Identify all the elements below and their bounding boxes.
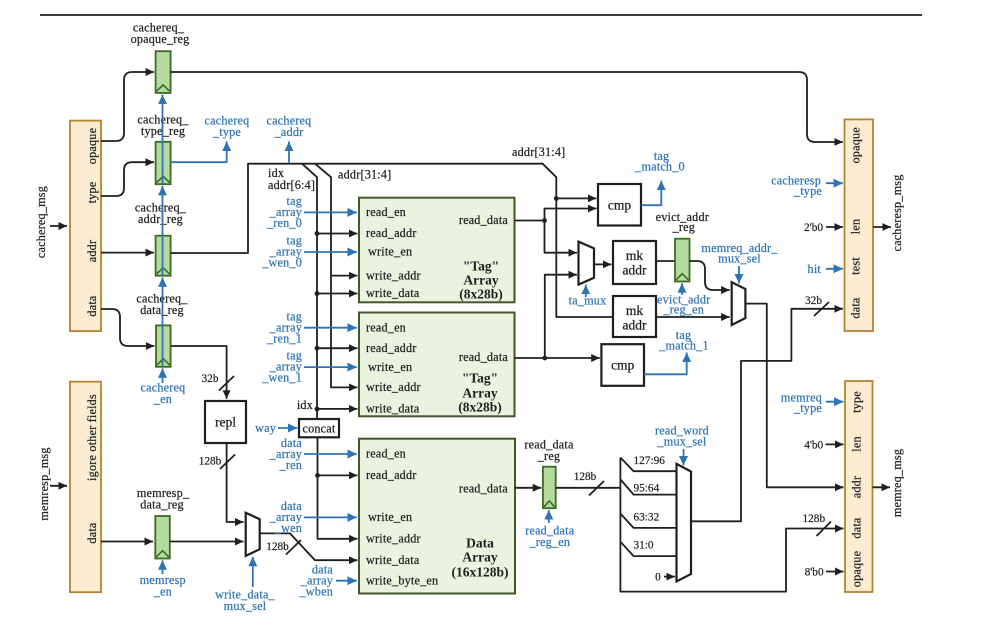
svg-text:write_en: write_en	[368, 245, 412, 259]
svg-text:_type: _type	[793, 401, 822, 415]
label 95:64	[634, 483, 660, 495]
label tag_array_ren_1	[266, 309, 303, 345]
svg-text:4'b0: 4'b0	[804, 439, 823, 451]
svg-text:_wben: _wben	[299, 585, 334, 599]
svg-text:addr[31:4]: addr[31:4]	[512, 145, 565, 159]
wire data_array_wen	[304, 516, 357, 518]
svg-text:_reg_en: _reg_en	[528, 535, 570, 549]
wire mk addr 2 output to memreq addr mux	[656, 316, 730, 318]
wire memreq_msg output arrow	[873, 486, 891, 488]
wire memreq addr mux output to memreq addr	[745, 304, 843, 488]
svg-text:read_data: read_data	[459, 482, 509, 496]
wire type_reg blue tap cachereq_type	[171, 142, 227, 163]
label evict_addr_reg_en	[657, 292, 710, 316]
label read_data_reg_en	[525, 524, 575, 550]
svg-text:memresp_msg: memresp_msg	[37, 447, 51, 520]
svg-text:2'b0: 2'b0	[804, 222, 823, 234]
register evict_addr_reg	[675, 239, 690, 282]
label evict_addr_reg	[656, 210, 709, 234]
slash 128b rd	[589, 481, 604, 496]
wire tag1 read_data output to cmp1	[515, 357, 600, 359]
slash 128b memreq	[817, 522, 832, 537]
svg-text:_reg_en: _reg_en	[662, 303, 704, 317]
svg-text:idx: idx	[297, 398, 313, 412]
label idx concat	[297, 398, 313, 412]
label 4'b0	[804, 439, 823, 451]
svg-text:data: data	[849, 297, 863, 318]
junction tag1 read_data	[542, 356, 547, 361]
label cachereq_en	[141, 381, 186, 407]
label cachereq_addr	[267, 114, 312, 140]
wire evict_addr_reg output to memreq addr mux	[690, 261, 730, 290]
svg-text:read_data: read_data	[459, 350, 509, 364]
label cacheresp_type	[771, 173, 822, 198]
svg-text:write_addr: write_addr	[366, 380, 421, 394]
svg-text:write_en: write_en	[368, 360, 412, 374]
svg-text:addr: addr	[623, 263, 647, 278]
svg-text:_wen_1: _wen_1	[261, 371, 302, 385]
wire tag0 read_data output	[515, 220, 545, 222]
svg-text:31:0: 31:0	[634, 540, 654, 552]
svg-text:_ren_1: _ren_1	[266, 331, 302, 345]
label 2'b0	[804, 222, 823, 234]
svg-text:"Tag": "Tag"	[462, 371, 498, 386]
svg-text:opaque_reg: opaque_reg	[131, 32, 190, 46]
svg-text:(16x128b): (16x128b)	[452, 565, 509, 580]
svg-text:addr: addr	[85, 240, 99, 262]
label tag_array_ren_0	[266, 194, 303, 230]
label memresp_en	[140, 573, 186, 599]
label way	[255, 421, 277, 435]
svg-text:opaque: opaque	[849, 551, 863, 587]
svg-text:128b: 128b	[803, 513, 826, 525]
svg-text:write_byte_en: write_byte_en	[366, 573, 438, 587]
svg-text:Array: Array	[462, 550, 497, 565]
wire repl output to write data mux	[227, 443, 244, 522]
svg-text:type: type	[849, 391, 863, 413]
cacheresp_msg port label	[890, 174, 904, 251]
label tag_array_wen_0	[261, 234, 302, 270]
wire tag_array_wen_0	[304, 251, 357, 253]
wire branch tag0 read_addr	[317, 233, 357, 235]
svg-text:memreq_msg: memreq_msg	[890, 449, 904, 517]
register read_data_reg	[524, 438, 574, 509]
wire slice 31:0	[620, 542, 676, 556]
wire read_data_reg output 128b bus	[556, 487, 621, 489]
svg-text:128b: 128b	[574, 471, 597, 483]
wire slice 127:96	[620, 458, 676, 472]
svg-text:addr[31:4]: addr[31:4]	[338, 168, 391, 182]
label tag_array_wen_1	[261, 349, 302, 385]
wire data_array_wben	[336, 580, 357, 582]
svg-text:addr: addr	[849, 476, 863, 498]
wire opaque_reg output to cacheresp opaque	[171, 72, 843, 142]
label idx addr[6:4]	[268, 166, 315, 192]
svg-text:cacheresp_msg: cacheresp_msg	[890, 174, 904, 251]
wire 2'b0 arrow	[826, 226, 843, 228]
svg-text:addr_reg: addr_reg	[138, 212, 183, 226]
svg-text:test: test	[849, 257, 863, 275]
svg-text:_reg: _reg	[537, 449, 560, 463]
svg-text:write_addr: write_addr	[366, 532, 421, 546]
label data_array_wben	[299, 563, 334, 599]
label hit	[808, 262, 822, 276]
svg-text:mux_sel: mux_sel	[224, 599, 267, 613]
svg-text:63:32: 63:32	[634, 512, 660, 524]
svg-text:read_addr: read_addr	[366, 341, 417, 355]
svg-text:cmp: cmp	[611, 358, 634, 373]
svg-text:_type: _type	[793, 184, 822, 198]
svg-text:32b: 32b	[202, 373, 219, 385]
label 8'b0	[805, 566, 824, 578]
cachereq_msg field box	[70, 121, 101, 332]
label tag_match_0	[634, 149, 685, 174]
wire ta_mux sel	[585, 285, 587, 297]
slash 128b repl	[220, 455, 235, 470]
svg-text:read_addr: read_addr	[366, 226, 417, 240]
svg-text:way: way	[255, 421, 277, 435]
wire memreq_type arrow	[826, 401, 844, 403]
svg-text:len: len	[849, 436, 863, 452]
svg-text:write_en: write_en	[368, 510, 412, 524]
wire memresp_en	[162, 560, 164, 574]
svg-text:hit: hit	[808, 262, 822, 276]
svg-text:data: data	[85, 295, 99, 316]
label tag_match_1	[658, 328, 709, 353]
register cachereq_type_reg	[137, 113, 189, 185]
wire 4'b0 arrow	[826, 443, 844, 445]
wire hit arrow	[826, 268, 843, 270]
wire memresp_msg arrow	[50, 485, 67, 487]
mux memreq_addr_mux	[732, 282, 746, 325]
label cachereq_type	[205, 114, 250, 140]
wire slice 95:64	[620, 479, 676, 494]
label constant 0	[655, 572, 661, 584]
svg-text:_en: _en	[153, 392, 172, 406]
svg-text:"Tag": "Tag"	[463, 259, 499, 274]
svg-text:32b: 32b	[805, 295, 822, 307]
svg-text:read_addr: read_addr	[366, 468, 417, 482]
svg-text:data: data	[849, 517, 863, 538]
wire way arrow	[278, 427, 297, 429]
svg-text:_match_1: _match_1	[658, 339, 709, 353]
cacheresp_msg field box	[845, 119, 874, 331]
svg-text:repl: repl	[215, 415, 236, 430]
mux ta_mux	[579, 242, 595, 285]
svg-text:write_addr: write_addr	[366, 268, 421, 282]
label data_array_ren	[269, 436, 303, 472]
wire read_word_mux_sel	[683, 449, 685, 466]
svg-text:_type: _type	[212, 125, 241, 139]
wire tag_array_ren_1	[304, 327, 357, 329]
svg-text:write_data: write_data	[366, 286, 420, 300]
wire constant 0 arrow	[664, 576, 675, 578]
wire data_reg output to repl	[171, 346, 227, 399]
Data Array block	[359, 439, 515, 594]
label 128b memreq	[803, 513, 826, 525]
svg-text:_reg: _reg	[672, 220, 695, 234]
label 128b wmux	[266, 541, 289, 553]
svg-text:(8x28b): (8x28b)	[458, 400, 502, 415]
svg-text:_addr: _addr	[274, 125, 304, 139]
svg-text:_match_0: _match_0	[634, 160, 685, 174]
svg-text:95:64: 95:64	[634, 483, 660, 495]
wire memreq_addr_mux_sel	[738, 266, 740, 284]
wire branch tag0 write_addr	[331, 275, 357, 277]
svg-text:cmp: cmp	[608, 198, 631, 213]
svg-text:127:96: 127:96	[634, 455, 666, 467]
wire branch to cmp0 input	[545, 209, 597, 221]
memreq_msg field box	[845, 381, 873, 592]
memresp_msg field box	[70, 382, 101, 593]
wire ta_mux output	[594, 263, 611, 265]
label 128b rd	[574, 471, 597, 483]
register cachereq_addr_reg	[135, 201, 187, 276]
wire data_array_ren	[304, 453, 357, 455]
junction tag0 read_data	[542, 218, 547, 223]
label 31:0	[634, 540, 654, 552]
svg-text:type: type	[85, 182, 99, 204]
svg-text:ta_mux: ta_mux	[569, 294, 607, 308]
svg-text:Array: Array	[462, 386, 497, 401]
label write_data_mux_sel	[215, 588, 275, 614]
slash 128b wmux	[286, 540, 301, 555]
svg-text:0: 0	[655, 572, 661, 584]
comparator cmp1	[601, 344, 644, 386]
wire cmp1 output tag_match_1	[644, 353, 687, 375]
wire branch tag1 read_addr	[317, 347, 357, 349]
wire read word bus bar	[620, 458, 843, 592]
wire write data mux output to data array write_data	[260, 533, 358, 560]
wire tag_array_wen_1	[304, 366, 357, 368]
svg-text:data: data	[85, 522, 99, 543]
top rule	[40, 14, 922, 16]
label addr[31:4] right	[512, 145, 565, 159]
cachereq_msg input port label	[34, 186, 48, 258]
svg-text:(8x28b): (8x28b)	[459, 287, 503, 302]
label 32b resp	[805, 295, 822, 307]
block mk addr 2	[613, 296, 656, 337]
svg-text:8'b0: 8'b0	[805, 566, 824, 578]
wire evict_addr_reg_en	[681, 283, 683, 295]
svg-text:igore other fields: igore other fields	[85, 394, 99, 481]
svg-text:_wen_0: _wen_0	[261, 256, 302, 270]
wire read word mux output to cacheresp data	[691, 309, 843, 522]
svg-text:_wen: _wen	[274, 521, 302, 535]
wire 8'b0 arrow	[826, 571, 844, 573]
svg-text:len: len	[849, 219, 863, 235]
wire branch tag1 write_data	[317, 408, 357, 410]
label memreq_addr_mux_sel	[701, 241, 778, 266]
svg-text:128b: 128b	[199, 456, 222, 468]
svg-text:addr: addr	[623, 318, 647, 333]
wire addr_reg output main addr bus	[171, 164, 613, 317]
svg-text:_mux_sel: _mux_sel	[657, 435, 707, 449]
wire branch cmp0 input addr	[556, 197, 596, 199]
wire memresp_data_reg output to write data mux	[170, 541, 244, 543]
svg-text:opaque: opaque	[85, 128, 99, 164]
wire opaque field to opaque_reg	[101, 72, 154, 141]
label ta_mux	[569, 294, 607, 308]
svg-text:read_data: read_data	[459, 213, 509, 227]
wire branch data array read_addr	[318, 474, 358, 476]
wire addr field to addr_reg	[101, 252, 154, 254]
Tag Array 1 block	[359, 313, 515, 417]
wire cachereq_en enable spine	[162, 368, 164, 383]
memresp_msg port label	[37, 447, 51, 520]
wire cmp0 output tag_match_0	[641, 181, 661, 206]
wire memresp data to memresp_data_reg	[101, 541, 153, 543]
wire data array read_data to read_data_reg	[515, 487, 541, 489]
label read_word_mux_sel	[655, 424, 709, 449]
wire cacheresp_msg output arrow	[873, 226, 891, 228]
svg-text:read_en: read_en	[366, 447, 406, 461]
label 128b repl	[199, 456, 222, 468]
svg-text:cachereq_msg: cachereq_msg	[34, 186, 48, 258]
svg-text:data_reg: data_reg	[140, 498, 184, 512]
wire addr bus peel B to tag write_addr lines	[315, 164, 357, 388]
concat block	[299, 419, 339, 437]
wire branch tag0 write_data	[317, 293, 357, 295]
svg-text:128b: 128b	[266, 541, 289, 553]
repl block	[205, 401, 246, 443]
label memreq_type	[781, 391, 822, 416]
wire slice 63:32	[620, 514, 676, 528]
Tag Array 0 block	[359, 198, 515, 303]
wire mk addr 1 to evict_addr_reg	[656, 260, 675, 262]
wire branch to ta_mux input1	[545, 275, 577, 358]
memreq_msg port label	[890, 449, 904, 517]
wire write_data_mux_sel	[252, 557, 254, 587]
svg-text:read_en: read_en	[366, 205, 406, 219]
register cachereq_data_reg	[136, 292, 188, 367]
wire read_data_reg_en	[548, 510, 550, 523]
svg-text:Array: Array	[463, 273, 498, 288]
register memresp_data_reg	[137, 486, 190, 559]
wire tag_array_ren_0	[304, 211, 357, 213]
wire blue tap cachereq_addr	[288, 142, 290, 163]
label 32b	[202, 373, 219, 385]
svg-text:write_data: write_data	[366, 553, 420, 567]
svg-text:_en: _en	[153, 585, 172, 599]
svg-text:mux_sel: mux_sel	[718, 252, 761, 266]
svg-text:write_data: write_data	[366, 402, 420, 416]
label data_array_wen	[269, 499, 303, 535]
svg-text:read_en: read_en	[366, 320, 406, 334]
wire concat output to data array addrs	[318, 437, 358, 539]
wire type field to type_reg	[101, 162, 154, 196]
svg-text:concat: concat	[302, 421, 335, 435]
svg-text:addr[6:4]: addr[6:4]	[268, 178, 315, 192]
svg-text:_ren: _ren	[279, 458, 302, 472]
svg-text:mk: mk	[626, 303, 644, 318]
label addr[31:4] left	[338, 168, 391, 182]
wire cacheresp_type arrow	[826, 182, 843, 184]
wire cachereq_msg arrow	[50, 225, 67, 227]
svg-text:opaque: opaque	[849, 127, 863, 163]
comparator cmp0	[598, 184, 641, 226]
svg-text:_ren_0: _ren_0	[266, 216, 302, 230]
block mk addr 1	[613, 241, 656, 284]
mux write_data_mux	[246, 513, 260, 556]
wire data field to data_reg	[101, 309, 154, 346]
wire branch to ta_mux input0	[545, 221, 577, 253]
register cachereq_opaque_reg	[131, 21, 190, 93]
svg-text:Data: Data	[466, 536, 494, 551]
slash 32b resp	[814, 302, 829, 316]
label 127:96	[634, 455, 666, 467]
mux read_word_mux	[677, 464, 692, 582]
wire addr bus peel A (idx) to concat	[302, 164, 317, 419]
slash 32b	[219, 376, 234, 391]
label 63:32	[634, 512, 660, 524]
svg-text:mk: mk	[626, 248, 644, 263]
